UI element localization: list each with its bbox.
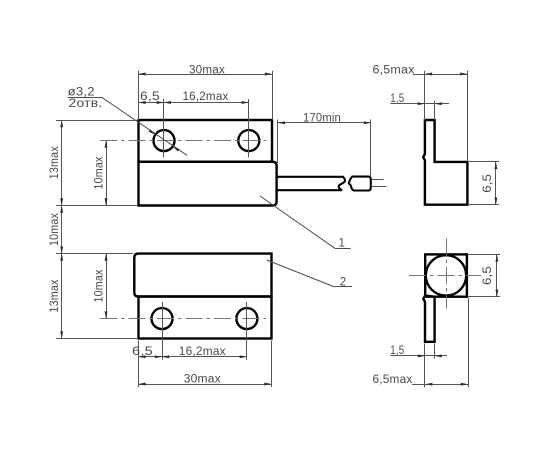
svg-text:170min: 170min [303, 113, 341, 125]
svg-text:6,5max: 6,5max [373, 64, 415, 76]
svg-text:30max: 30max [184, 373, 221, 385]
svg-text:ø3,2: ø3,2 [68, 87, 95, 99]
svg-text:1: 1 [338, 238, 345, 250]
svg-text:1,5: 1,5 [390, 345, 404, 357]
svg-text:10max: 10max [94, 156, 106, 189]
svg-text:16,2max: 16,2max [179, 346, 226, 358]
svg-text:30max: 30max [189, 64, 225, 76]
svg-text:10max: 10max [94, 269, 106, 302]
svg-text:6,5: 6,5 [482, 174, 494, 193]
svg-text:13max: 13max [49, 279, 61, 312]
svg-text:1,5: 1,5 [390, 93, 404, 105]
svg-text:2: 2 [340, 276, 347, 288]
svg-text:16,2max: 16,2max [183, 91, 229, 103]
svg-text:6,5: 6,5 [482, 266, 494, 285]
svg-text:13max: 13max [49, 146, 61, 179]
svg-text:2отв.: 2отв. [69, 98, 103, 110]
svg-text:10max: 10max [49, 213, 61, 246]
svg-text:6,5max: 6,5max [373, 374, 413, 386]
